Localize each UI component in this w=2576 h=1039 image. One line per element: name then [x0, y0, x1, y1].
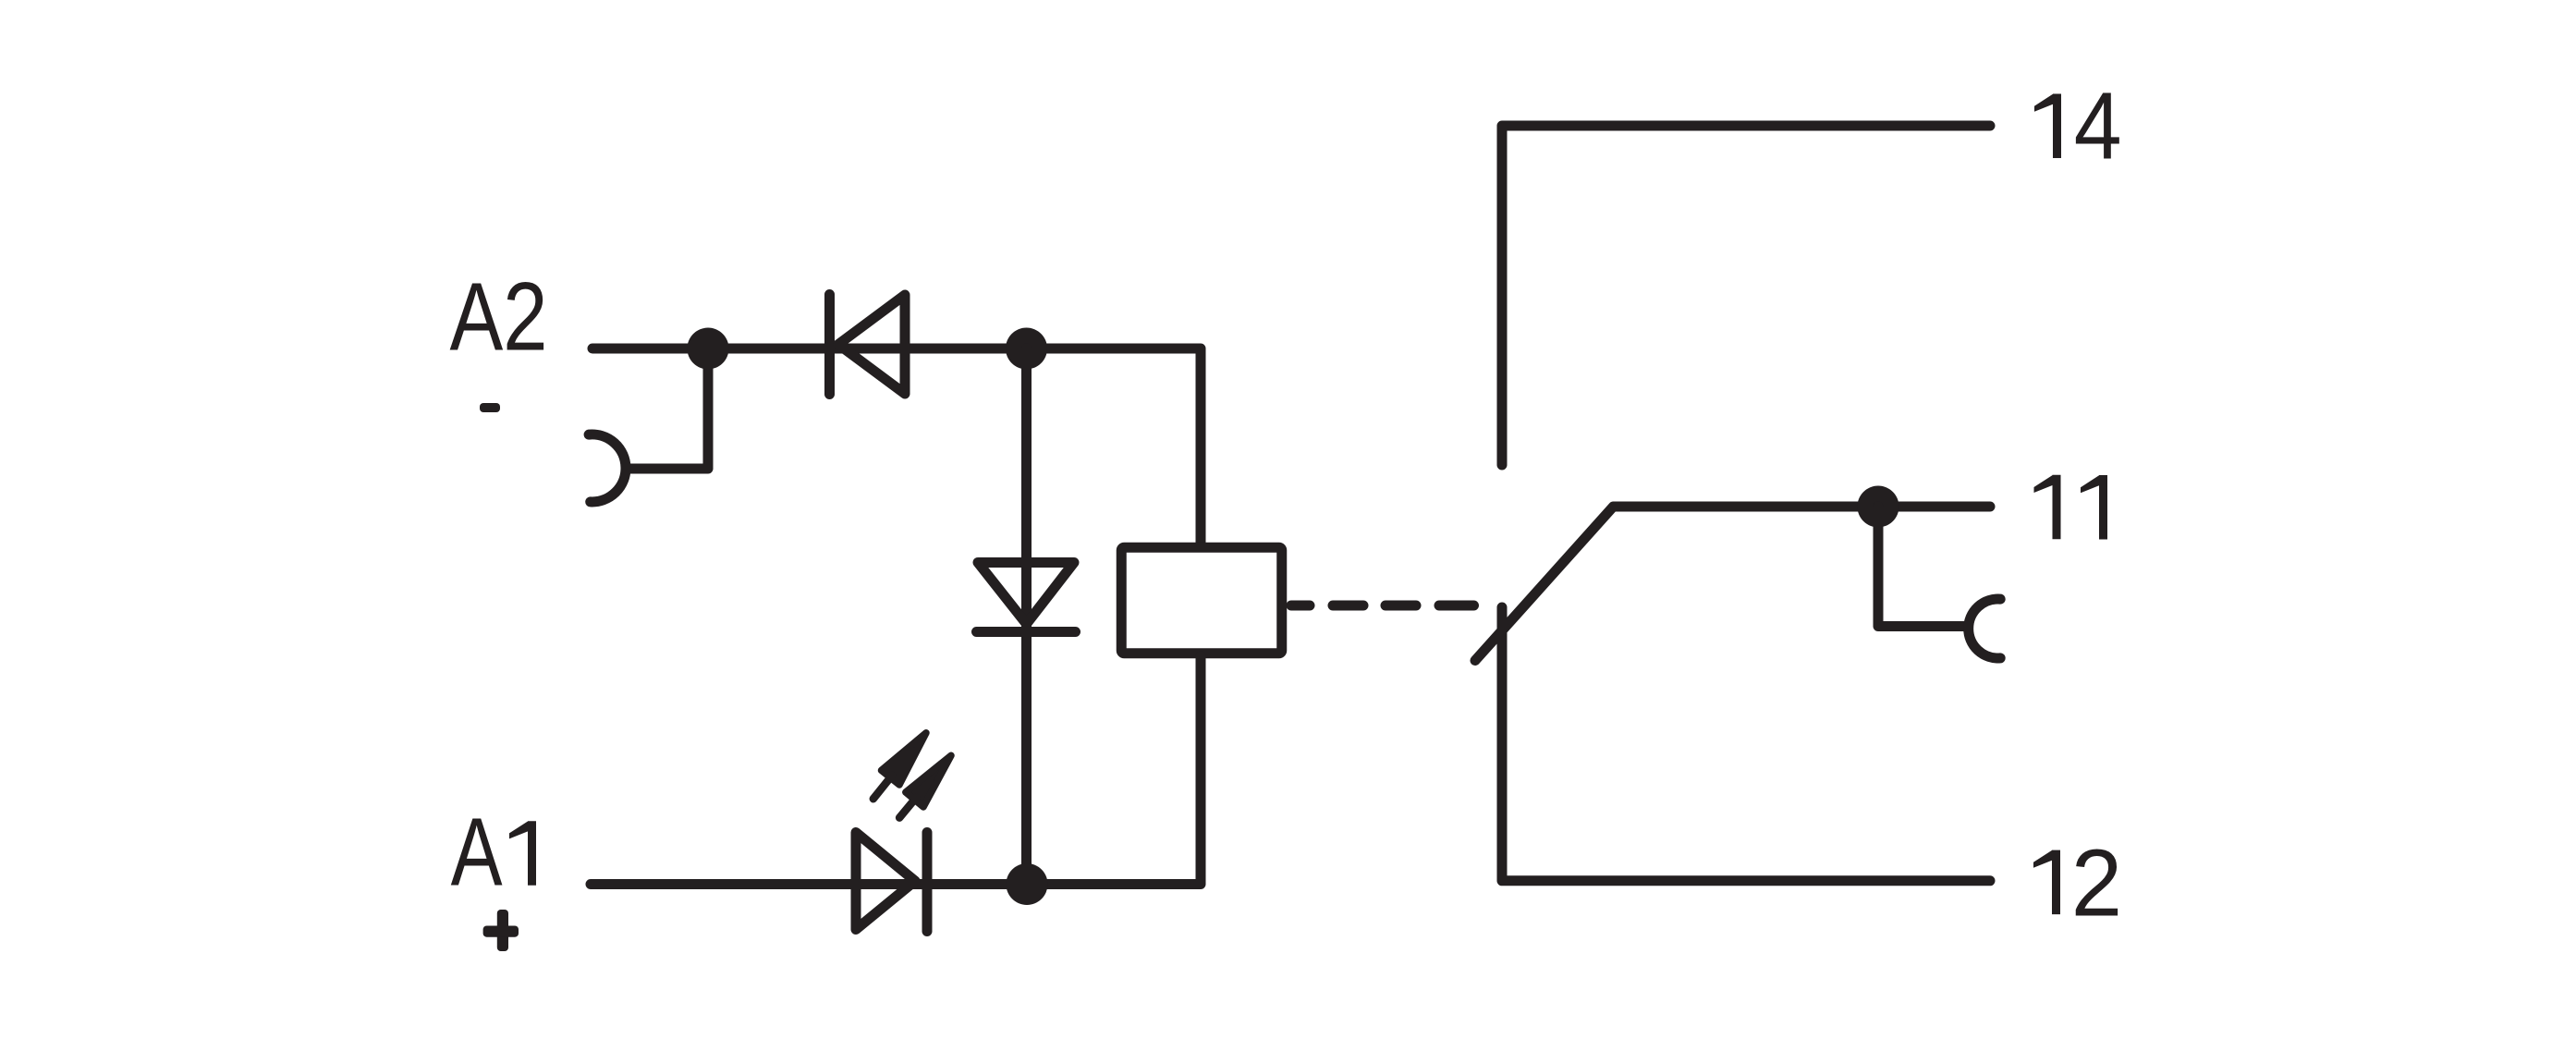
diode D1 cathode bar	[824, 295, 835, 395]
svg-text:4: 4	[2074, 73, 2122, 179]
node junction A1/suppressor	[1007, 863, 1048, 905]
clamp contact lead 11	[1878, 507, 1965, 627]
mechanical link dash 1	[1291, 601, 1310, 611]
node junction 11/clamp	[1858, 486, 1899, 528]
LED triangle	[856, 833, 915, 930]
wire A2 horizontal with corner down to coil	[592, 348, 1201, 544]
LED cathode bar	[922, 833, 933, 932]
clamp contact arc 11	[1969, 599, 2001, 658]
svg-text:A2: A2	[450, 263, 548, 372]
wire terminal 12 with corner and contact pivot stub	[1502, 607, 1990, 881]
node junction A2/suppressor	[1006, 328, 1047, 370]
polarity label plus	[483, 910, 519, 951]
relay moving contact arm and wire to terminal 11	[1475, 507, 1990, 661]
mechanical link dash 4	[1439, 601, 1474, 611]
relay coil K1 box	[1121, 547, 1282, 654]
svg-text:2: 2	[2071, 830, 2122, 936]
svg-text:A: A	[451, 799, 503, 907]
clamp contact lead A2	[628, 348, 708, 469]
node junction A2/clamp	[688, 328, 729, 370]
wire A1 horizontal with corner up to coil	[591, 656, 1201, 885]
terminal label 12	[2033, 850, 2060, 915]
diode D1 triangle	[838, 295, 905, 394]
terminal label 14	[2034, 94, 2061, 159]
LED emission arrow 1	[864, 726, 935, 806]
clamp contact arc A2	[589, 434, 626, 502]
wire suppressor branch vertical	[1021, 348, 1032, 885]
polarity label minus	[480, 403, 500, 412]
mechanical link dash 3	[1386, 601, 1416, 611]
suppressor diode triangle	[978, 563, 1074, 625]
mechanical link dash 2	[1333, 601, 1363, 611]
suppressor diode cathode bar	[977, 627, 1076, 637]
terminal label 11	[2034, 475, 2061, 540]
LED emission arrow 2	[890, 748, 959, 825]
wire terminal 14 with corner and fixed contact stub	[1502, 126, 1990, 465]
